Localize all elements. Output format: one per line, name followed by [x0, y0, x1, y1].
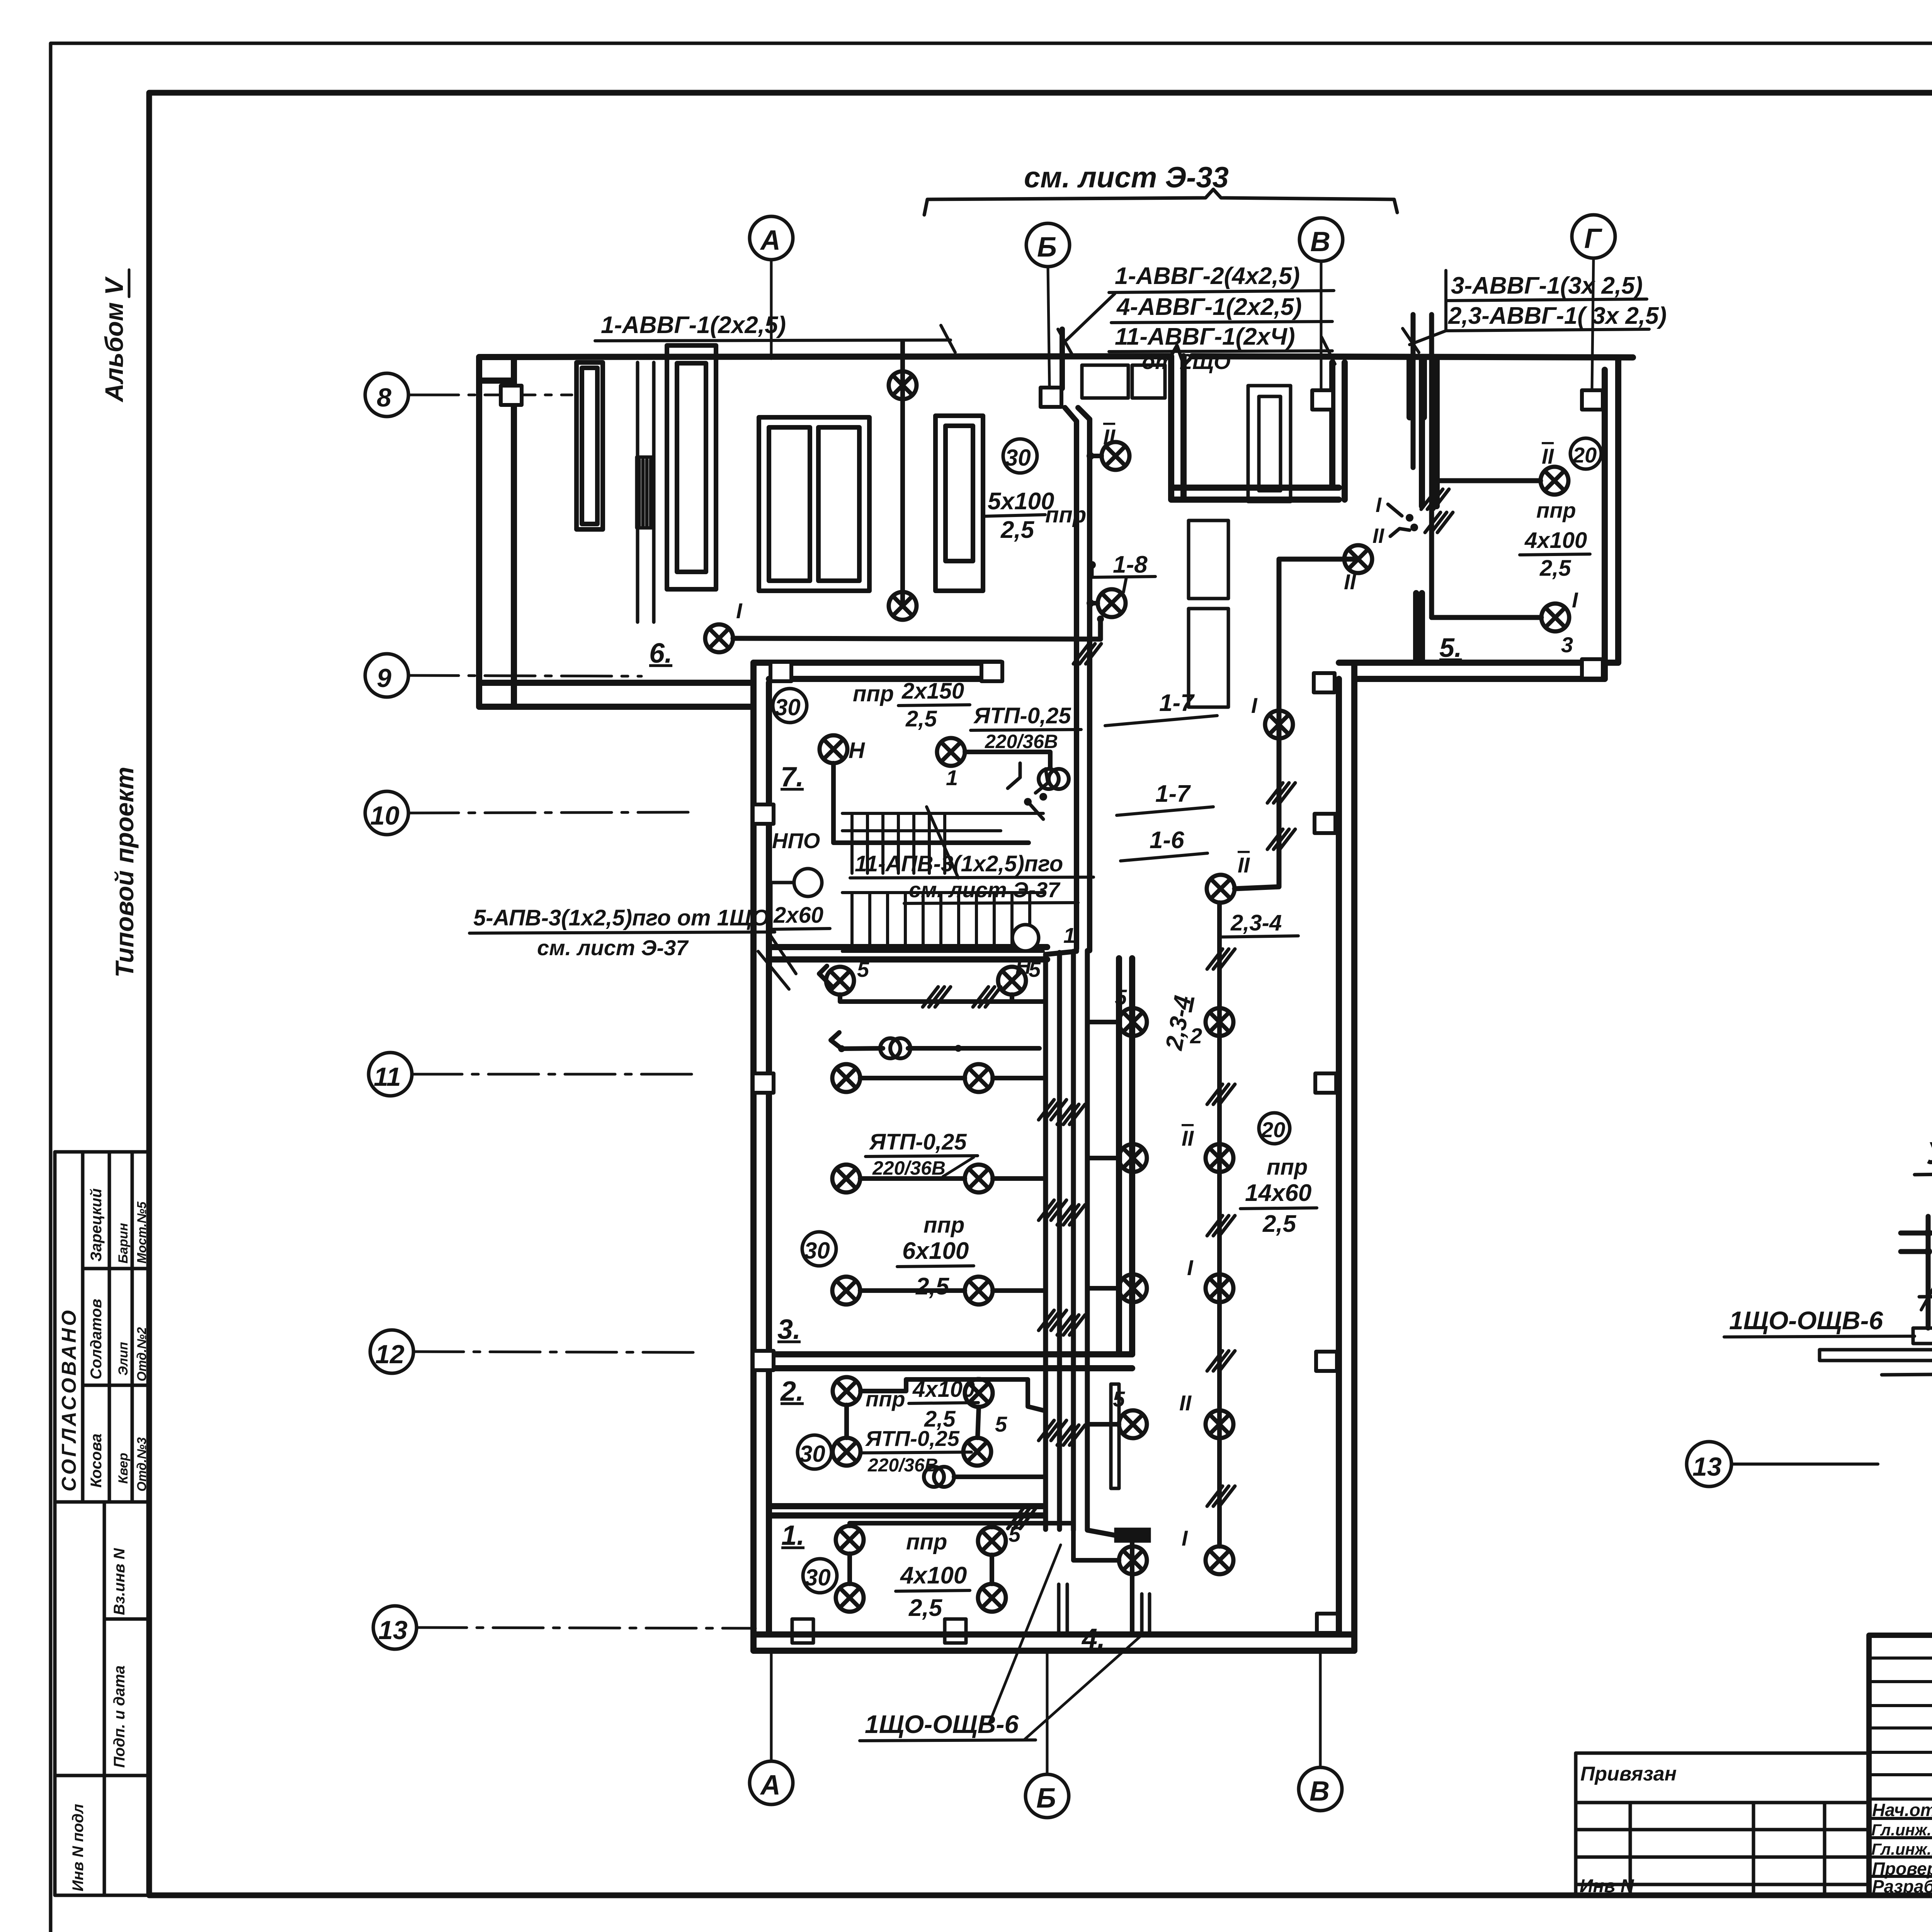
lamp I on vertical [1265, 711, 1293, 738]
room 3 bottom wall [769, 1351, 1132, 1357]
svg-text:ЯТП-0,25: ЯТП-0,25 [869, 1129, 967, 1155]
svg-text:220/36В: 220/36В [867, 1455, 938, 1476]
svg-text:2,5: 2,5 [1539, 556, 1571, 581]
axis 11 [369, 1053, 694, 1096]
machine hall window pier [577, 362, 603, 529]
svg-text:1-7: 1-7 [1155, 781, 1191, 807]
node 1 busbars [1820, 1328, 1932, 1375]
svg-text:Элип: Элип [116, 1342, 131, 1376]
room 7 lamp N [820, 735, 847, 763]
svg-text:СОГЛАСОВАНО: СОГЛАСОВАНО [58, 1308, 80, 1492]
riser bundle from top box [1062, 329, 1090, 951]
svg-text:30: 30 [799, 1441, 825, 1467]
svg-text:Узел 1: Узел 1 [1926, 1136, 1932, 1171]
svg-text:3: 3 [1561, 633, 1573, 657]
svg-text:см. лист Э-37: см. лист Э-37 [909, 878, 1061, 902]
lamp 2x60 [794, 869, 822, 896]
svg-text:см. лист Э-33: см. лист Э-33 [1024, 161, 1229, 194]
svg-text:II: II [1103, 425, 1116, 449]
svg-text:Гл.инж.пр: Гл.инж.пр [1871, 1840, 1932, 1858]
room 1 lamps [836, 1526, 864, 1554]
switchboard 1ShchO block [1114, 1528, 1151, 1543]
svg-text:14х60: 14х60 [1245, 1180, 1311, 1206]
svg-text:I: I [1182, 1526, 1188, 1550]
svg-text:ппр: ппр [923, 1213, 964, 1238]
svg-text:Зарецкий: Зарецкий [88, 1188, 105, 1262]
svg-text:от 2ЩО: от 2ЩО [1142, 349, 1231, 374]
stair lamp N [1012, 925, 1039, 951]
svg-text:II: II [1372, 524, 1384, 548]
svg-text:Квер: Квер [116, 1453, 131, 1484]
leader from labels to riser [1066, 294, 1115, 340]
node 1 floor line with ticks [1919, 1295, 1932, 1297]
axis B top [1026, 223, 1070, 386]
axis A top [750, 216, 793, 359]
room 2 lamps [833, 1377, 861, 1405]
svg-text:ппр: ппр [866, 1387, 905, 1411]
svg-text:ппр: ппр [853, 681, 894, 706]
axis B bottom [1026, 1653, 1069, 1818]
below-stair lamp row with switches [826, 967, 854, 995]
svg-text:2,5: 2,5 [1000, 517, 1035, 543]
approval stamp table [55, 1152, 149, 1502]
svg-text:Б: Б [1036, 1783, 1056, 1814]
stairs upper flight [842, 807, 1043, 878]
svg-text:1-6: 1-6 [1150, 827, 1184, 854]
svg-text:1.: 1. [781, 1520, 804, 1551]
axis 13 [373, 1606, 755, 1649]
svg-text:5х100: 5х100 [988, 488, 1054, 515]
svg-text:5-АПВ-3(1х2,5)пго от 1ЩО: 5-АПВ-3(1х2,5)пго от 1ЩО [473, 905, 769, 930]
room 5 circle 20 [1570, 438, 1601, 469]
svg-text:2,3-4: 2,3-4 [1230, 910, 1282, 935]
svg-text:30: 30 [805, 1565, 831, 1590]
machine hall lamp drop wire [900, 342, 905, 606]
svg-text:Типовой проект: Типовой проект [110, 767, 139, 978]
svg-text:Инв N: Инв N [1580, 1876, 1634, 1896]
svg-text:Косова: Косова [88, 1434, 105, 1488]
svg-text:ппр: ппр [1536, 498, 1576, 522]
switch cluster near stairs [1008, 763, 1048, 819]
svg-text:В: В [1310, 1776, 1330, 1807]
bottom wall stubs [1057, 1584, 1061, 1634]
svg-text:5: 5 [995, 1412, 1007, 1436]
svg-text:Подп. и дата: Подп. и дата [111, 1665, 128, 1768]
room 4 circle 20 and ppr 14x60 label [1259, 1113, 1290, 1144]
room 5 left wall stub lower [1413, 593, 1419, 663]
stair bottom wall [769, 944, 1047, 950]
svg-text:3.: 3. [777, 1314, 801, 1345]
svg-text:Н: Н [849, 738, 865, 763]
svg-text:5: 5 [1115, 985, 1127, 1009]
central block left wall [750, 663, 757, 1651]
room4 left lamp column stubs [1073, 985, 1147, 1574]
room 2 bottom wall [769, 1503, 1043, 1509]
svg-text:НПО: НПО [772, 828, 820, 853]
group circle 30 room 7 [773, 689, 807, 723]
svg-text:3-АВВГ-1(3х 2,5): 3-АВВГ-1(3х 2,5) [1451, 272, 1643, 299]
title block outer [1869, 1635, 1932, 1895]
svg-text:2,5: 2,5 [1262, 1211, 1297, 1237]
machine hall right wall [1168, 356, 1174, 500]
svg-text:I: I [1572, 588, 1578, 612]
svg-text:20: 20 [1572, 443, 1597, 467]
bracket [924, 189, 1397, 215]
axis V wall segment [1329, 362, 1335, 488]
svg-text:13: 13 [1692, 1452, 1722, 1481]
wire from lamp I to riser [733, 638, 1100, 639]
svg-text:13: 13 [378, 1616, 408, 1645]
duct rect room2 [1111, 1384, 1119, 1488]
inventory margin table [55, 1502, 149, 1895]
svg-text:Г: Г [1584, 223, 1602, 254]
svg-text:5.: 5. [1439, 633, 1462, 663]
svg-text:1ЩО-ОЩВ-6: 1ЩО-ОЩВ-6 [1729, 1306, 1884, 1335]
room 2 circle 30 [798, 1435, 832, 1469]
svg-text:II: II [1182, 1126, 1194, 1150]
svg-text:8: 8 [377, 383, 391, 412]
machine hall equipment 2 [759, 417, 869, 591]
svg-text:Альбом V: Альбом V [100, 276, 128, 403]
svg-text:1-АВВГ-2(4х2,5): 1-АВВГ-2(4х2,5) [1115, 263, 1300, 289]
svg-text:2,5: 2,5 [905, 706, 937, 731]
window openings in top wall [792, 365, 1291, 1643]
svg-text:1-7: 1-7 [1159, 690, 1195, 716]
svg-text:2х150: 2х150 [901, 679, 964, 704]
svg-text:2,5: 2,5 [908, 1595, 943, 1621]
top wall of building [479, 356, 1171, 357]
lamp II upper arm [1102, 442, 1129, 470]
svg-text:220/36В: 220/36В [872, 1157, 946, 1179]
wall break zigzag [1171, 345, 1192, 366]
svg-text:Солдатов: Солдатов [88, 1299, 105, 1379]
svg-text:1-АВВГ-1(2х2,5): 1-АВВГ-1(2х2,5) [601, 312, 786, 338]
svg-text:1: 1 [946, 765, 958, 790]
room 5 lamp II [1541, 467, 1568, 495]
svg-text:Инв N подл: Инв N подл [70, 1804, 87, 1891]
svg-text:Отд.№3: Отд.№3 [134, 1437, 149, 1492]
svg-text:11-АВВГ-1(2хЧ): 11-АВВГ-1(2хЧ) [1115, 323, 1295, 350]
svg-text:11-АПВ-3(1х2,5)пго: 11-АПВ-3(1х2,5)пго [855, 851, 1063, 876]
machine hall bottom wall [479, 680, 753, 686]
room 2 transformer [924, 1467, 954, 1487]
svg-text:2: 2 [1190, 1024, 1202, 1048]
svg-text:Привязан: Привязан [1580, 1763, 1677, 1785]
svg-text:I: I [1251, 693, 1258, 718]
room 5 right wall [1602, 370, 1608, 679]
lamp I machine hall [705, 624, 733, 652]
axis G top [1572, 215, 1615, 390]
svg-text:12: 12 [375, 1340, 405, 1369]
svg-text:220/36В: 220/36В [985, 731, 1058, 752]
svg-text:Барин: Барин [116, 1223, 131, 1264]
room 7 lamp 1 [937, 738, 965, 766]
node 1 riser wires [1901, 1216, 1932, 1328]
axis 12 [370, 1330, 696, 1373]
svg-text:4х100: 4х100 [1524, 528, 1587, 553]
axis V bottom [1299, 1653, 1342, 1811]
cable hatch marks on riser bundle [1039, 1100, 1066, 1120]
machine hall equipment 3 [935, 416, 983, 591]
group circle 30 machine hall [1003, 439, 1037, 473]
stairs lower flight [842, 893, 1043, 951]
duct rectangles in corridor [1248, 386, 1291, 502]
svg-text:6х100: 6х100 [902, 1238, 969, 1264]
room 3 switch and transformer row [831, 1032, 1039, 1049]
svg-text:ппр: ппр [906, 1529, 947, 1554]
svg-text:II: II [1179, 1391, 1192, 1415]
axis 10 [365, 791, 696, 835]
node 1 axis circle 13 [1687, 1442, 1731, 1486]
svg-text:I: I [1121, 573, 1128, 598]
title block small grid [1869, 1635, 1932, 1895]
svg-text:2.: 2. [780, 1376, 804, 1407]
svg-text:5: 5 [857, 957, 869, 981]
svg-text:Провер.: Провер. [1872, 1859, 1932, 1879]
svg-text:10: 10 [370, 801, 400, 830]
svg-text:В: В [1310, 226, 1330, 257]
room 2 side lamp 5 [965, 1379, 993, 1407]
svg-text:4-АВВГ-1(2х2,5): 4-АВВГ-1(2х2,5) [1116, 294, 1302, 320]
axis V top [1299, 218, 1343, 390]
hatches on feed wire [1267, 783, 1295, 803]
svg-text:II: II [1344, 570, 1357, 594]
axis 8 [365, 373, 572, 417]
room 5 lamp I [1541, 604, 1569, 631]
interior wall right of riser [1116, 958, 1122, 1354]
machine hall left wall [476, 357, 482, 707]
svg-text:30: 30 [775, 694, 801, 720]
svg-text:2,3-АВВГ-1( 3х 2,5): 2,3-АВВГ-1( 3х 2,5) [1448, 303, 1667, 329]
transformer room 3 [880, 1038, 910, 1058]
svg-text:4х100: 4х100 [900, 1562, 967, 1589]
svg-text:Разраб: Разраб [1872, 1876, 1932, 1896]
room5 riser wires [1413, 315, 1432, 617]
svg-text:5: 5 [1113, 1387, 1125, 1411]
wire from junction down to lamp column [1235, 559, 1358, 889]
room 1 circle 30 [803, 1559, 837, 1593]
svg-text:1ЩО-ОЩВ-6: 1ЩО-ОЩВ-6 [865, 1710, 1019, 1738]
lamp II near corridor [1344, 545, 1372, 573]
svg-text:2х60: 2х60 [773, 903, 823, 928]
svg-text:I: I [1187, 1255, 1194, 1280]
svg-text:А: А [760, 225, 781, 256]
svg-text:Вз.инв N: Вз.инв N [111, 1548, 128, 1615]
svg-text:Б: Б [1037, 232, 1057, 263]
building walls [479, 345, 1633, 1651]
svg-text:ЯТП-0,25: ЯТП-0,25 [865, 1426, 960, 1451]
left extension table [1576, 1753, 1869, 1895]
svg-text:ппр: ппр [1267, 1155, 1308, 1180]
svg-text:1-8: 1-8 [1113, 551, 1148, 578]
room4 arm wall stub [1406, 357, 1413, 417]
room 3 lamp row 2 [832, 1165, 860, 1192]
svg-text:Нач.отд: Нач.отд [1872, 1800, 1932, 1820]
upper corridor wall horizontal [1171, 485, 1339, 491]
lamp I upper arm [1098, 589, 1126, 617]
svg-text:30: 30 [1005, 445, 1031, 471]
transformer symbol room 7 [1039, 769, 1069, 789]
svg-text:20: 20 [1261, 1117, 1285, 1142]
axis A bottom [750, 1653, 793, 1804]
svg-text:1: 1 [1063, 923, 1075, 947]
room 3 lamp row 3 [832, 1277, 860, 1304]
machine hall equipment 1 [667, 345, 716, 589]
svg-text:II: II [1238, 853, 1250, 877]
central block right wall [1336, 679, 1342, 1634]
svg-text:см. лист Э-37: см. лист Э-37 [537, 935, 689, 960]
svg-text:Мост.№5: Мост.№5 [134, 1201, 149, 1264]
structural column squares [501, 386, 1603, 1633]
svg-text:Гл.инж.от.: Гл.инж.от. [1871, 1821, 1932, 1839]
svg-text:Отд.№2: Отд.№2 [134, 1327, 149, 1381]
svg-text:6.: 6. [649, 638, 672, 669]
svg-text:7.: 7. [781, 762, 804, 793]
svg-text:11: 11 [374, 1062, 401, 1092]
svg-text:II: II [1542, 444, 1554, 468]
room5 connecting bottom wall [1339, 660, 1618, 666]
svg-text:5: 5 [1029, 957, 1041, 981]
svg-text:2,5: 2,5 [915, 1273, 950, 1300]
svg-text:I: I [1376, 493, 1382, 517]
svg-text:ппр: ппр [1045, 502, 1086, 527]
svg-text:4.: 4. [1081, 1623, 1105, 1654]
machine hall partition with hatched column [637, 362, 654, 622]
central block bottom wall [753, 1631, 1354, 1638]
lamp [889, 592, 917, 620]
svg-text:I: I [736, 599, 743, 623]
svg-text:30: 30 [804, 1238, 830, 1264]
room 5 left wall upper [1419, 357, 1425, 506]
lamp [889, 371, 917, 399]
leader to room5 riser [1410, 331, 1446, 345]
room4 right lamp column [1179, 853, 1250, 1574]
riser bundle middle section [1046, 949, 1087, 1530]
svg-text:9: 9 [377, 663, 391, 693]
svg-text:ЯТП-0,25: ЯТП-0,25 [973, 703, 1071, 728]
room 7 top wall [753, 660, 1001, 666]
room 3 lamp row 1 [832, 1064, 860, 1092]
svg-text:А: А [760, 1770, 781, 1801]
axis 9 [365, 654, 641, 697]
